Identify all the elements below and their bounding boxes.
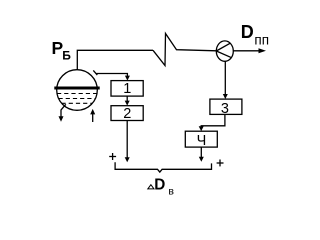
block 1 bbox=[111, 81, 143, 97]
riser line with up arrow into drum bbox=[90, 109, 95, 122]
wire block3 to block4 bbox=[201, 114, 225, 127]
wire block1 to block2 bbox=[126, 96, 128, 102]
plus sign left bbox=[109, 153, 116, 160]
flow sensor (orifice) circle bbox=[216, 41, 233, 61]
wire sensor to block 3 bbox=[224, 61, 226, 95]
drain line with down arrow bbox=[59, 104, 66, 122]
svg-text:Б: Б bbox=[62, 49, 71, 63]
water dashed line 2 bbox=[59, 98, 96, 100]
svg-text:2: 2 bbox=[123, 106, 131, 122]
steam output arrow bbox=[233, 48, 266, 53]
wire feed to block 1 bbox=[96, 74, 127, 78]
label delta D_v (feedwater flow change) bbox=[148, 177, 175, 198]
water dashed line 1 bbox=[57, 93, 97, 95]
svg-text:в: в bbox=[168, 186, 174, 198]
svg-text:D: D bbox=[241, 22, 254, 42]
label P_B (drum pressure) bbox=[52, 38, 72, 62]
wire block4 down to summer bbox=[200, 147, 202, 157]
block 3 bbox=[210, 99, 242, 117]
summer brace bbox=[115, 162, 211, 172]
line break symbol bbox=[153, 34, 216, 66]
steam line from drum top bbox=[77, 50, 153, 70]
svg-text:Ч: Ч bbox=[197, 133, 207, 149]
svg-text:D: D bbox=[154, 177, 165, 194]
water dashed line 3 bbox=[62, 102, 93, 104]
svg-text:1: 1 bbox=[123, 81, 131, 97]
water level line bbox=[54, 87, 99, 90]
svg-text:пп: пп bbox=[254, 32, 269, 47]
block 4 bbox=[185, 131, 217, 149]
plus sign right bbox=[217, 160, 224, 167]
drum (boiler drum) bbox=[57, 70, 98, 111]
block 2 bbox=[111, 106, 143, 122]
wire block2 down to summer bbox=[126, 121, 128, 159]
feedwater tick at drum bbox=[93, 70, 97, 75]
label D_pp (superheated steam flow) bbox=[241, 22, 269, 48]
